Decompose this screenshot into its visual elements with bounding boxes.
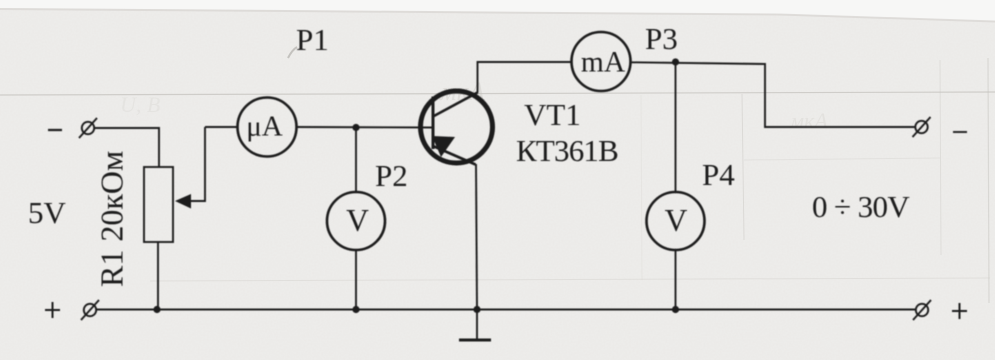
transistor VT1 — [421, 91, 493, 165]
minus label (left input) — [48, 129, 62, 131]
P3 label — [645, 21, 678, 56]
svg-text:0 ÷ 30V: 0 ÷ 30V — [812, 189, 910, 224]
node: base / P2 junction — [352, 124, 359, 131]
node: P3 / P4 junction — [672, 58, 679, 65]
KT361B label — [516, 133, 618, 168]
plus label (right) — [952, 303, 967, 319]
wire: top-left terminal to resistor top — [95, 128, 160, 167]
wire: transistor emitter down to bottom rail — [476, 164, 477, 310]
milliammeter P3 (mA) — [572, 32, 631, 91]
wire: node down to voltmeter P2 — [355, 128, 357, 193]
P1 label — [296, 22, 329, 57]
terminal bottom-left — [81, 300, 99, 320]
wire: node down to voltmeter P4 — [675, 62, 677, 192]
minus label (right) — [953, 131, 967, 133]
wire: P1 to transistor base, with node — [297, 126, 434, 129]
wiper arrow of R1 — [175, 127, 205, 209]
terminal top-right — [913, 117, 931, 137]
P4 label — [702, 157, 735, 192]
wire: P4 to bottom rail — [675, 250, 677, 310]
svg-text:μA: μA — [246, 111, 283, 143]
ammeter P1 (µA) — [238, 98, 297, 157]
5V label — [28, 195, 67, 230]
svg-text:R1 20кОм: R1 20кОм — [94, 151, 130, 287]
voltmeter P2 — [327, 192, 385, 250]
terminal bottom-right — [913, 300, 931, 320]
R1 20кОм value label (rotated) — [94, 151, 130, 287]
node: bottom rail below R1 — [153, 306, 160, 313]
svg-text:P2: P2 — [375, 158, 408, 193]
P2 label — [375, 158, 408, 193]
wire: mA to right step and terminal — [631, 62, 916, 127]
svg-text:U, В: U, В — [120, 92, 160, 117]
wire: wiper to ammeter P1 — [205, 126, 238, 128]
0 - 30V label — [812, 189, 910, 224]
svg-text:P4: P4 — [702, 157, 735, 192]
svg-text:P3: P3 — [645, 21, 678, 56]
svg-text:P1: P1 — [296, 22, 329, 57]
svg-text:5V: 5V — [28, 195, 67, 230]
bottom rail wire — [97, 309, 917, 311]
terminal top-left — [79, 118, 97, 138]
wire: P2 to bottom rail — [355, 250, 357, 310]
voltmeter P4 — [647, 192, 705, 250]
node: bottom rail below P2 — [352, 306, 359, 313]
svg-text:VT1: VT1 — [524, 97, 581, 132]
VT1 label — [524, 97, 581, 132]
resistor R1 (potentiometer body) — [144, 167, 173, 242]
node: bottom rail below P4 — [672, 306, 679, 313]
svg-text:mA: mA — [581, 47, 626, 79]
svg-text:V: V — [665, 203, 688, 238]
svg-text:мкА: мкА — [789, 108, 828, 133]
wire: resistor bottom to bottom rail — [157, 242, 159, 310]
svg-text:V: V — [346, 203, 369, 238]
wire: collector up to top rail and to mA meter — [478, 62, 572, 93]
node: bottom rail below VT1 — [473, 306, 480, 313]
plus label (left output) — [45, 302, 60, 318]
ground — [459, 310, 491, 342]
svg-text:КТ361В: КТ361В — [516, 133, 618, 168]
